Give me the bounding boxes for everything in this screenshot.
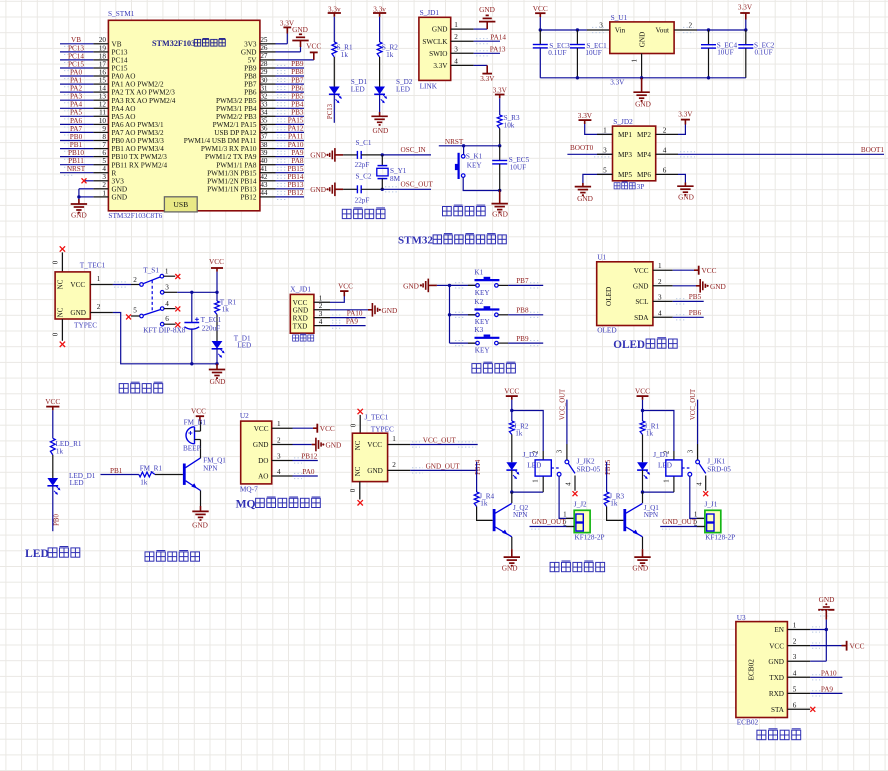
svg-text:PB5: PB5: [291, 92, 304, 100]
svg-text:3: 3: [687, 449, 694, 453]
svg-text:PA7: PA7: [70, 125, 83, 133]
svg-text:1k: 1k: [140, 479, 148, 487]
svg-text:S_U1: S_U1: [611, 13, 628, 22]
svg-text:VCC: VCC: [533, 4, 548, 13]
svg-text:PWM1/3 RX PA10: PWM1/3 RX PA10: [201, 145, 257, 153]
svg-text:18: 18: [99, 52, 107, 60]
svg-text:16: 16: [99, 68, 107, 76]
svg-text:14: 14: [99, 85, 107, 93]
svg-text:ECB02: ECB02: [737, 717, 759, 726]
svg-text:13: 13: [99, 93, 107, 101]
svg-text:PB7: PB7: [244, 81, 257, 89]
svg-text:PB7: PB7: [291, 76, 304, 84]
svg-text:PA0 AO: PA0 AO: [112, 73, 136, 81]
svg-text:MQ: MQ: [236, 497, 256, 510]
svg-text:J_D2: J_D2: [523, 451, 539, 459]
svg-text:PA2 TX AO PWM2/3: PA2 TX AO PWM2/3: [112, 89, 176, 97]
svg-text:KF128-2P: KF128-2P: [575, 533, 605, 541]
svg-text:Vout: Vout: [656, 26, 669, 34]
svg-text:4: 4: [566, 482, 573, 486]
svg-text:1: 1: [97, 275, 101, 283]
svg-text:40: 40: [260, 157, 268, 165]
svg-text:3.3V: 3.3V: [610, 79, 625, 87]
svg-text:27: 27: [260, 52, 268, 60]
svg-text:PB10 TX PWM2/3: PB10 TX PWM2/3: [112, 153, 168, 161]
svg-text:ECB02: ECB02: [748, 659, 756, 681]
svg-text:4: 4: [663, 146, 667, 154]
svg-text:3: 3: [599, 22, 603, 30]
svg-text:PB9: PB9: [516, 335, 529, 343]
svg-text:1: 1: [631, 59, 639, 63]
svg-text:LED: LED: [396, 86, 410, 94]
svg-text:10UF: 10UF: [510, 163, 526, 171]
svg-text:7: 7: [102, 141, 106, 149]
svg-text:NPN: NPN: [513, 511, 528, 519]
svg-text:U3: U3: [737, 613, 746, 622]
svg-text:S_Y1: S_Y1: [390, 167, 407, 175]
svg-text:PB4: PB4: [291, 101, 304, 109]
svg-text:1: 1: [658, 262, 662, 270]
svg-text:4: 4: [319, 318, 323, 326]
svg-text:PA8: PA8: [291, 157, 304, 165]
svg-text:GND: GND: [241, 49, 257, 57]
svg-text:VCC: VCC: [850, 641, 865, 650]
svg-text:PA9: PA9: [821, 686, 834, 694]
svg-text:VCC: VCC: [306, 41, 321, 50]
svg-text:PC13: PC13: [327, 103, 334, 119]
svg-text:U2: U2: [240, 411, 249, 420]
svg-text:1k: 1k: [515, 430, 523, 438]
svg-text:S_C1: S_C1: [356, 139, 372, 147]
svg-text:3V3: 3V3: [244, 40, 257, 48]
svg-text:GND: GND: [492, 209, 508, 218]
svg-text:NPN: NPN: [203, 464, 218, 472]
svg-text:LED: LED: [70, 479, 84, 487]
svg-text:GND: GND: [403, 282, 419, 291]
svg-text:AO: AO: [258, 473, 268, 481]
svg-text:3.3V: 3.3V: [433, 62, 448, 70]
svg-text:2: 2: [392, 461, 396, 469]
svg-text:X_JD1: X_JD1: [290, 285, 311, 294]
svg-text:PB3: PB3: [291, 109, 304, 117]
svg-text:GND: GND: [210, 377, 226, 386]
svg-text:VCC: VCC: [70, 281, 85, 289]
svg-text:PWM2/1 PA15: PWM2/1 PA15: [213, 121, 257, 129]
svg-text:R: R: [112, 169, 117, 177]
svg-text:VCC: VCC: [191, 406, 206, 415]
svg-text:9: 9: [102, 125, 106, 133]
svg-text:1k: 1k: [610, 499, 618, 507]
svg-text:31: 31: [260, 84, 268, 92]
svg-text:K2: K2: [474, 298, 483, 306]
svg-text:PA10: PA10: [347, 309, 363, 317]
svg-text:1: 1: [277, 420, 281, 428]
svg-text:SWIO: SWIO: [429, 50, 447, 58]
svg-text:1: 1: [793, 622, 797, 630]
svg-text:3: 3: [319, 310, 323, 318]
svg-text:GND: GND: [768, 658, 784, 666]
svg-text:VCC: VCC: [254, 425, 269, 433]
svg-text:FM_Q1: FM_Q1: [203, 457, 226, 465]
svg-text:MP1: MP1: [618, 131, 632, 139]
svg-text:BEEP: BEEP: [183, 445, 201, 453]
svg-text:STA: STA: [771, 706, 785, 714]
svg-text:15: 15: [99, 77, 107, 85]
svg-text:12: 12: [99, 101, 107, 109]
svg-text:6: 6: [102, 149, 106, 157]
svg-text:PA5: PA5: [70, 109, 83, 117]
svg-text:TXD: TXD: [293, 322, 308, 330]
svg-text:2: 2: [102, 181, 106, 189]
svg-text:GND: GND: [293, 307, 309, 315]
svg-text:10: 10: [99, 117, 107, 125]
svg-text:PA15: PA15: [288, 117, 304, 125]
svg-text:PA11: PA11: [288, 133, 304, 141]
svg-text:11: 11: [99, 109, 106, 117]
svg-text:4: 4: [277, 468, 281, 476]
svg-text:U1: U1: [597, 253, 606, 262]
svg-text:PA5 AO: PA5 AO: [112, 113, 136, 121]
svg-text:PB12: PB12: [288, 189, 304, 197]
svg-text:GND: GND: [112, 185, 128, 193]
svg-text:T_EC1: T_EC1: [201, 316, 222, 324]
svg-text:1: 1: [663, 479, 670, 482]
svg-text:PA10: PA10: [288, 141, 304, 149]
svg-text:PB10: PB10: [68, 149, 84, 157]
svg-text:OLED: OLED: [597, 325, 616, 334]
svg-text:5V: 5V: [248, 57, 258, 65]
svg-text:NRST: NRST: [445, 138, 464, 146]
svg-text:MP2: MP2: [637, 131, 651, 139]
svg-text:GND: GND: [310, 151, 326, 160]
svg-text:0: 0: [52, 332, 60, 336]
svg-text:SRD-05: SRD-05: [577, 466, 601, 474]
svg-text:GND: GND: [639, 32, 647, 48]
svg-text:PB0: PB0: [70, 133, 83, 141]
svg-text:10UF: 10UF: [717, 48, 733, 56]
svg-text:USB DP PA12: USB DP PA12: [214, 129, 257, 137]
svg-text:0: 0: [349, 488, 357, 492]
svg-text:PA2: PA2: [70, 85, 83, 93]
svg-text:NC: NC: [56, 279, 64, 289]
svg-text:GND: GND: [635, 100, 651, 109]
svg-text:KEY: KEY: [475, 289, 491, 297]
svg-text:PA4: PA4: [70, 101, 83, 109]
svg-text:0: 0: [350, 423, 358, 427]
svg-text:20: 20: [99, 36, 107, 44]
svg-text:GND: GND: [192, 520, 208, 529]
svg-text:30: 30: [260, 76, 268, 84]
svg-text:LINK: LINK: [420, 81, 438, 90]
svg-text:3: 3: [557, 449, 564, 453]
svg-text:1k: 1k: [386, 51, 394, 59]
svg-text:LED: LED: [527, 462, 541, 470]
svg-text:2: 2: [454, 33, 458, 41]
svg-text:TXD: TXD: [769, 674, 784, 682]
svg-text:PWM1/3N PB15: PWM1/3N PB15: [207, 169, 257, 177]
svg-text:33: 33: [260, 101, 268, 109]
svg-text:2: 2: [133, 276, 137, 284]
svg-text:1k: 1k: [646, 430, 654, 438]
svg-text:1k: 1k: [480, 499, 488, 507]
svg-text:17: 17: [99, 60, 107, 68]
svg-text:PA9: PA9: [346, 318, 359, 326]
svg-text:GND: GND: [710, 282, 726, 291]
svg-text:GND: GND: [632, 564, 648, 573]
svg-text:4: 4: [165, 300, 169, 308]
svg-text:J_J2: J_J2: [574, 501, 587, 509]
svg-text:S_JD1: S_JD1: [420, 8, 440, 17]
svg-text:BOOT0: BOOT0: [570, 144, 594, 152]
svg-text:STM32F103C8T6: STM32F103C8T6: [108, 211, 162, 220]
svg-text:PWM3/1 PB4: PWM3/1 PB4: [216, 105, 257, 113]
svg-text:GND: GND: [253, 441, 269, 449]
svg-text:4: 4: [658, 309, 662, 317]
svg-text:S_JD2: S_JD2: [613, 117, 633, 126]
svg-text:0.1UF: 0.1UF: [548, 49, 566, 57]
svg-text:J_D1: J_D1: [653, 451, 669, 459]
svg-text:J_JK1: J_JK1: [707, 458, 725, 466]
svg-text:8: 8: [102, 133, 106, 141]
svg-text:PA10: PA10: [821, 669, 837, 677]
svg-text:PB6: PB6: [689, 309, 702, 317]
svg-text:KF128-2P: KF128-2P: [705, 533, 735, 541]
svg-text:PB0: PB0: [53, 514, 60, 526]
svg-text:LED: LED: [351, 86, 365, 94]
svg-text:GND: GND: [678, 192, 694, 201]
svg-text:PB5: PB5: [689, 293, 702, 301]
svg-text:GND: GND: [577, 194, 593, 203]
svg-text:KEY: KEY: [475, 347, 491, 355]
svg-text:220uF: 220uF: [202, 324, 220, 332]
svg-text:PB1: PB1: [70, 141, 83, 149]
svg-text:J_J1: J_J1: [705, 501, 718, 509]
svg-text:PC15: PC15: [68, 60, 84, 68]
svg-text:3: 3: [102, 173, 106, 181]
svg-text:PA0: PA0: [70, 68, 83, 76]
svg-text:29: 29: [260, 68, 268, 76]
svg-text:3: 3: [658, 293, 662, 301]
svg-text:PB0 AO PWM3/3: PB0 AO PWM3/3: [112, 137, 165, 145]
svg-text:BOOT1: BOOT1: [861, 146, 885, 154]
svg-text:PA3 RX AO PWM2/4: PA3 RX AO PWM2/4: [112, 97, 176, 105]
svg-text:GND: GND: [70, 309, 86, 317]
svg-text:42: 42: [260, 173, 268, 181]
svg-text:2: 2: [663, 126, 667, 134]
svg-text:34: 34: [260, 109, 268, 117]
svg-text:VCC: VCC: [209, 257, 224, 266]
svg-text:SDA: SDA: [634, 314, 649, 322]
svg-text:VB: VB: [71, 36, 81, 44]
svg-text:PB13: PB13: [288, 181, 304, 189]
svg-text:PB15: PB15: [288, 165, 304, 173]
svg-text:3.3V: 3.3V: [578, 112, 593, 120]
svg-text:36: 36: [260, 125, 268, 133]
svg-text:GND: GND: [479, 5, 495, 14]
svg-text:GND_OUT: GND_OUT: [532, 518, 567, 526]
svg-text:PA13: PA13: [490, 46, 506, 54]
svg-text:PB11: PB11: [68, 157, 84, 165]
svg-text:1: 1: [533, 479, 540, 482]
svg-text:J_JK2: J_JK2: [577, 458, 595, 466]
svg-text:PB12: PB12: [301, 452, 317, 460]
svg-text:MQ-7: MQ-7: [240, 485, 258, 494]
svg-text:SWCLK: SWCLK: [422, 38, 448, 46]
svg-text:1: 1: [165, 267, 169, 275]
svg-text:3.3V: 3.3V: [493, 86, 508, 94]
svg-text:22pF: 22pF: [355, 196, 370, 204]
svg-text:PA1: PA1: [70, 77, 83, 85]
svg-text:2: 2: [658, 278, 662, 286]
svg-text:VCC_OUT: VCC_OUT: [690, 388, 697, 420]
svg-text:43: 43: [260, 181, 268, 189]
svg-text:6: 6: [663, 166, 667, 174]
svg-text:3: 3: [793, 653, 797, 661]
svg-text:LED: LED: [25, 547, 49, 560]
svg-text:1k: 1k: [341, 51, 349, 59]
svg-text:5: 5: [793, 685, 797, 693]
svg-text:GND: GND: [112, 194, 128, 202]
svg-text:1: 1: [454, 21, 458, 29]
svg-text:1: 1: [392, 435, 396, 443]
svg-text:4: 4: [696, 482, 703, 486]
svg-text:3: 3: [454, 45, 458, 53]
svg-text:PB8: PB8: [291, 68, 304, 76]
svg-text:PA0: PA0: [302, 468, 315, 476]
svg-text:4: 4: [102, 165, 106, 173]
svg-text:LED: LED: [237, 341, 251, 349]
svg-text:PWM1/1 PA8: PWM1/1 PA8: [216, 161, 257, 169]
svg-text:TYPEC: TYPEC: [371, 424, 394, 433]
svg-text:6: 6: [793, 701, 797, 709]
svg-text:2: 2: [793, 638, 797, 646]
svg-text:3: 3: [603, 146, 607, 154]
svg-text:GND: GND: [367, 467, 383, 475]
svg-text:VCC: VCC: [338, 282, 353, 290]
svg-text:PA9: PA9: [291, 149, 304, 157]
svg-text:RXD: RXD: [769, 690, 784, 698]
svg-text:PB6: PB6: [291, 84, 304, 92]
svg-text:3P: 3P: [637, 182, 645, 191]
svg-text:MP3: MP3: [618, 151, 632, 159]
svg-text:KFT DIP-8X8: KFT DIP-8X8: [143, 325, 186, 334]
svg-text:OLED: OLED: [613, 339, 645, 351]
svg-text:LED: LED: [658, 462, 672, 470]
svg-text:VCC: VCC: [45, 397, 60, 406]
svg-text:VCC: VCC: [504, 386, 519, 395]
svg-text:STM32F103: STM32F103: [152, 39, 195, 48]
svg-text:GND: GND: [502, 564, 518, 573]
svg-text:SCL: SCL: [635, 298, 648, 306]
svg-text:GND: GND: [382, 306, 398, 315]
svg-text:25: 25: [260, 36, 268, 44]
svg-text:RXD: RXD: [293, 314, 308, 322]
svg-text:3.3V: 3.3V: [678, 111, 693, 119]
svg-text:VCC: VCC: [702, 266, 717, 275]
svg-text:PA6 AO PWM3/1: PA6 AO PWM3/1: [112, 121, 164, 129]
svg-text:KEY: KEY: [475, 318, 491, 326]
svg-text:4: 4: [454, 57, 458, 65]
svg-text:FM_R1: FM_R1: [140, 465, 163, 473]
svg-text:PA7 AO PWM3/2: PA7 AO PWM3/2: [112, 129, 164, 137]
svg-text:DO: DO: [258, 457, 268, 465]
svg-text:22pF: 22pF: [355, 161, 370, 169]
svg-text:Vin: Vin: [615, 26, 626, 34]
svg-text:PB11 RX PWM2/4: PB11 RX PWM2/4: [112, 161, 168, 169]
svg-text:10k: 10k: [504, 122, 515, 130]
svg-text:VCC: VCC: [367, 441, 382, 449]
svg-text:PB7: PB7: [516, 277, 529, 285]
svg-text:PB12: PB12: [241, 194, 257, 202]
svg-text:GND: GND: [326, 440, 342, 449]
svg-text:MP5: MP5: [618, 171, 632, 179]
svg-text:PC14: PC14: [112, 57, 128, 65]
svg-text:GND_OUT: GND_OUT: [662, 518, 697, 526]
svg-text:KEY: KEY: [467, 162, 483, 170]
svg-text:J_TEC1: J_TEC1: [365, 412, 389, 421]
svg-text:2: 2: [319, 302, 323, 310]
svg-text:VCC: VCC: [635, 386, 650, 395]
svg-text:PB8: PB8: [516, 307, 529, 315]
svg-text:T_S1: T_S1: [143, 266, 159, 275]
svg-text:1: 1: [603, 126, 607, 134]
svg-text:5: 5: [102, 157, 106, 165]
svg-text:K1: K1: [474, 269, 483, 277]
svg-text:2: 2: [689, 22, 693, 30]
svg-text:0.1UF: 0.1UF: [755, 48, 773, 56]
svg-text:K3: K3: [474, 326, 483, 334]
svg-text:GND_OUT: GND_OUT: [426, 463, 461, 471]
svg-text:PC15: PC15: [112, 65, 128, 73]
svg-text:S_K1: S_K1: [466, 153, 483, 161]
svg-text:SRD-05: SRD-05: [707, 466, 731, 474]
svg-text:MP6: MP6: [637, 171, 651, 179]
svg-text:GND: GND: [310, 185, 326, 194]
svg-text:S_C2: S_C2: [356, 173, 372, 181]
svg-text:STM32: STM32: [398, 235, 433, 247]
svg-text:PA6: PA6: [70, 117, 83, 125]
svg-text:PWM1/2 TX PA9: PWM1/2 TX PA9: [205, 153, 257, 161]
svg-text:OLED: OLED: [605, 287, 613, 306]
svg-text:MP4: MP4: [637, 151, 651, 159]
svg-text:44: 44: [260, 189, 268, 197]
svg-text:8M: 8M: [390, 175, 401, 183]
svg-text:PA4 AO: PA4 AO: [112, 105, 136, 113]
svg-text:NC: NC: [354, 466, 362, 476]
svg-text:PA12: PA12: [288, 125, 304, 133]
svg-text:USB: USB: [173, 200, 188, 209]
svg-text:32: 32: [260, 92, 268, 100]
svg-text:PB1: PB1: [110, 467, 123, 475]
svg-text:5: 5: [603, 166, 607, 174]
svg-text:GND: GND: [372, 126, 388, 135]
svg-text:FM_B1: FM_B1: [184, 418, 207, 426]
svg-text:EN: EN: [774, 626, 784, 634]
svg-text:NC: NC: [56, 307, 64, 317]
svg-text:6: 6: [165, 315, 169, 323]
svg-text:GND: GND: [819, 595, 835, 604]
svg-text:PB6: PB6: [244, 89, 257, 97]
svg-text:VCC: VCC: [634, 267, 649, 275]
svg-text:PB14: PB14: [288, 173, 304, 181]
svg-text:VB: VB: [112, 40, 122, 48]
svg-text:28: 28: [260, 60, 268, 68]
svg-text:GND: GND: [71, 211, 87, 220]
svg-text:NC: NC: [354, 440, 362, 450]
svg-text:PB8: PB8: [244, 73, 257, 81]
svg-text:PB9: PB9: [291, 60, 304, 68]
svg-text:NRST: NRST: [67, 165, 86, 173]
